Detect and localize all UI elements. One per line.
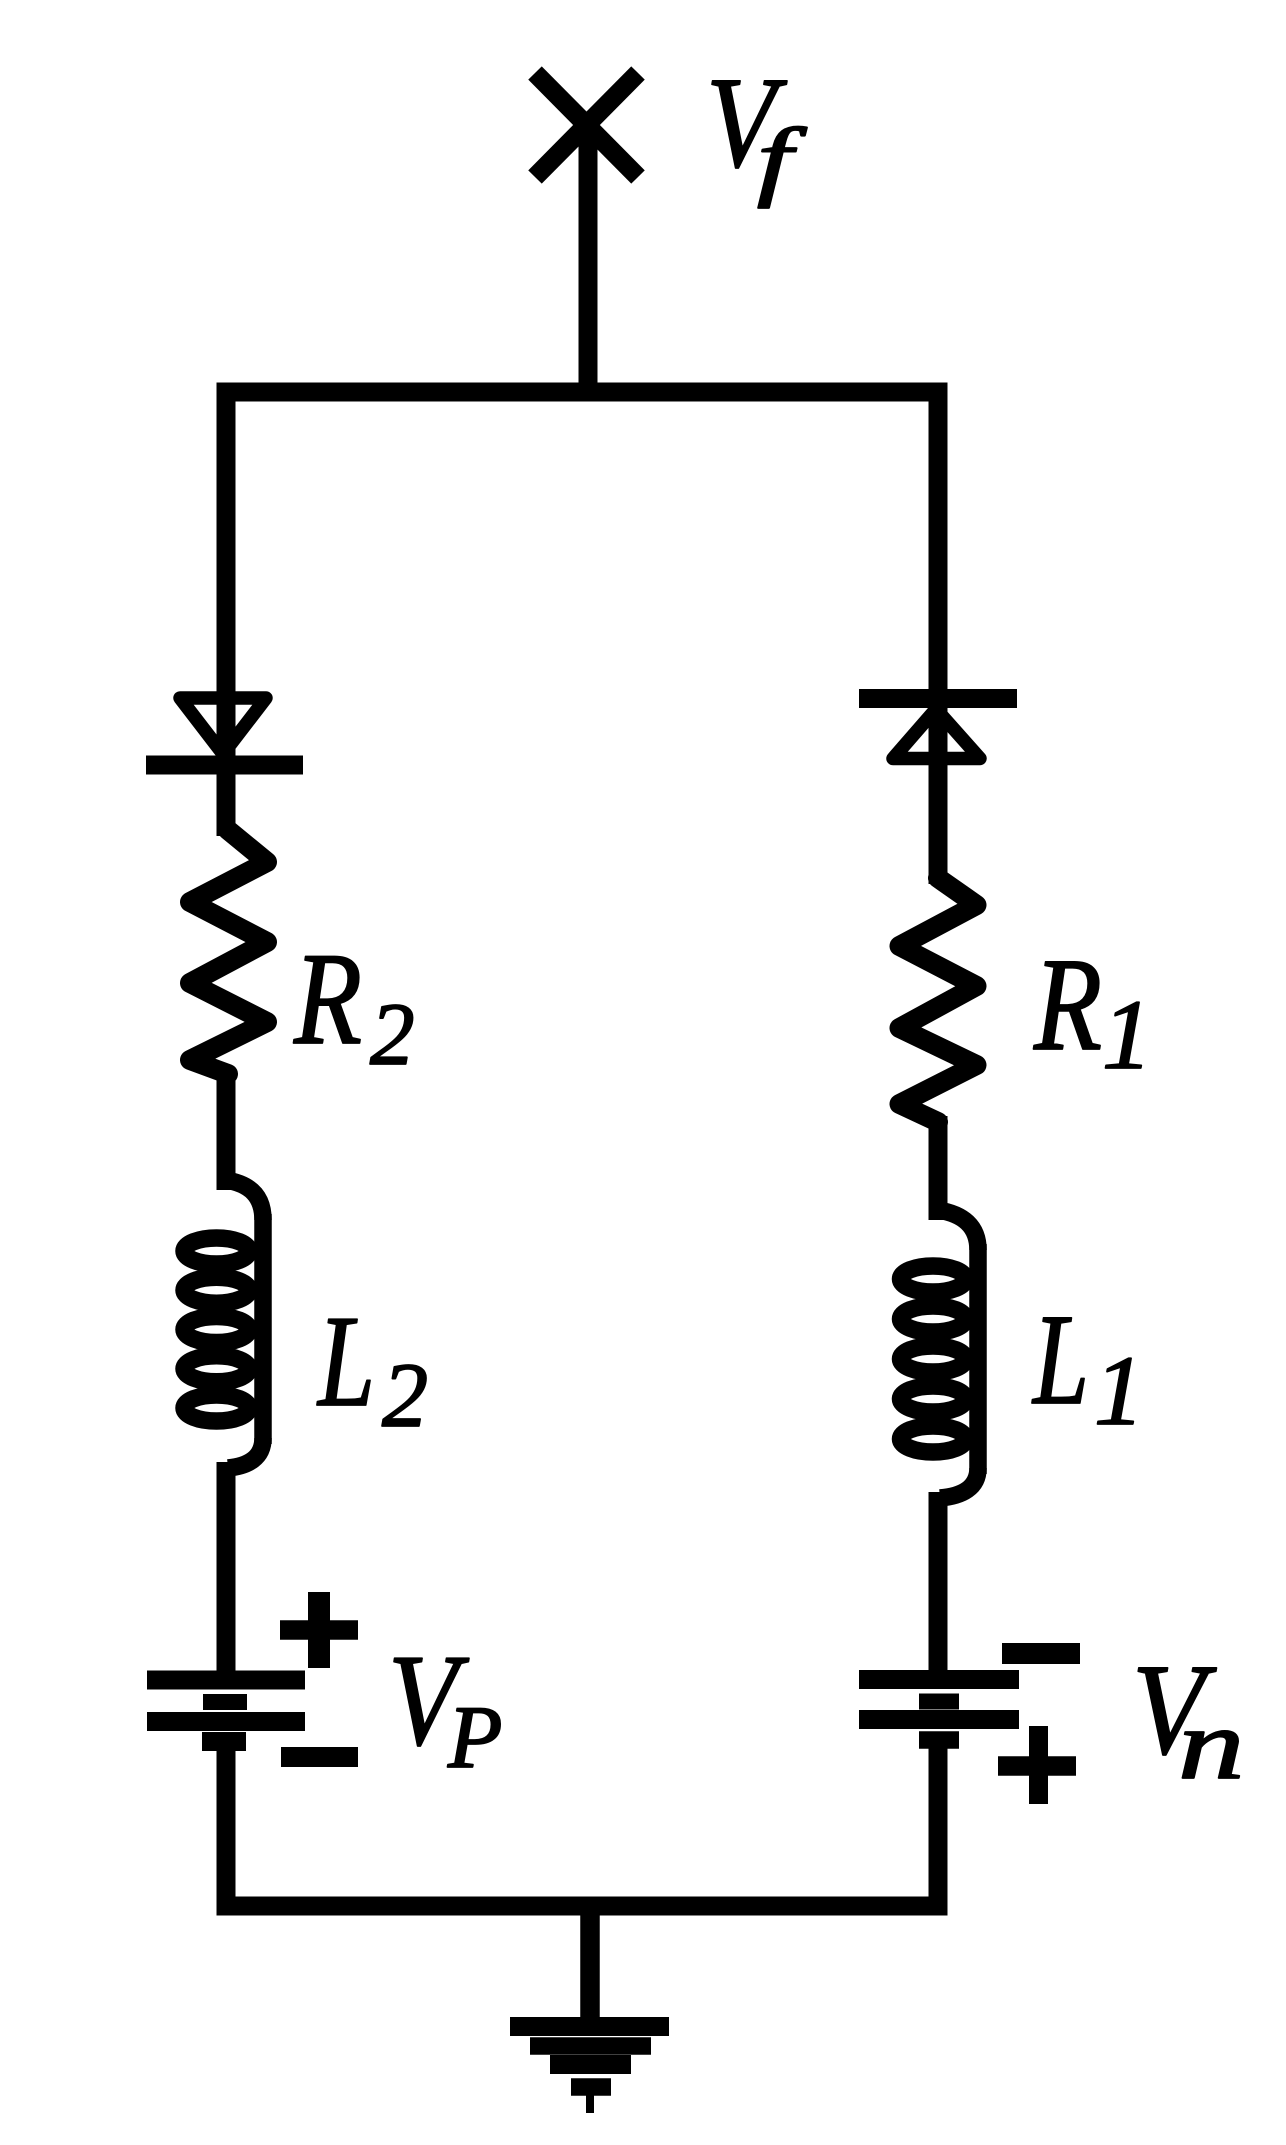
svg-text:P: P	[447, 1689, 502, 1787]
wire: bottom rail	[226, 1742, 938, 1906]
ground	[510, 1906, 669, 2113]
label Vf	[706, 51, 807, 209]
battery VP plus sign	[280, 1592, 358, 1668]
svg-text:n: n	[1178, 1690, 1244, 1800]
label L1	[1031, 1288, 1144, 1446]
label R2	[293, 925, 414, 1084]
wire: R2 to L2	[217, 1068, 236, 1190]
svg-text:1: 1	[1094, 1335, 1144, 1446]
svg-text:R: R	[293, 925, 362, 1072]
label L2	[316, 1289, 428, 1446]
inductor L2	[184, 1180, 263, 1468]
label R1	[1033, 930, 1152, 1090]
wire: R1 to L1	[929, 1116, 948, 1220]
wire: D1 to R1	[929, 760, 948, 884]
wire: Vf stub down to top rail	[579, 122, 598, 396]
diode D1 (right, cathode up)	[859, 694, 1017, 800]
battery Vn plates	[859, 1680, 1019, 1741]
label Vn	[1132, 1638, 1244, 1800]
diode D2 (left, cathode down)	[146, 692, 303, 780]
resistor R1	[900, 878, 977, 1122]
wire: L1 to battery Vn	[929, 1492, 948, 1680]
resistor R2	[190, 830, 267, 1074]
label VP	[388, 1628, 502, 1787]
svg-text:L: L	[1031, 1288, 1089, 1432]
battery VP plates	[147, 1680, 305, 1742]
battery VP minus sign	[281, 1747, 358, 1767]
svg-text:L: L	[316, 1289, 375, 1434]
wire: L2 to battery VP	[217, 1462, 236, 1680]
svg-text:2: 2	[382, 1344, 428, 1446]
svg-text:2: 2	[370, 986, 415, 1084]
svg-text:R: R	[1033, 930, 1102, 1078]
svg-text:1: 1	[1102, 979, 1152, 1090]
battery Vn minus sign	[1002, 1643, 1080, 1664]
wire: D2 to R2	[217, 770, 236, 836]
wire: VP to bottom rail	[217, 1742, 236, 1906]
battery Vn plus sign	[998, 1726, 1076, 1804]
terminal X (Vf input)	[535, 73, 638, 177]
wire: top rail with left and right drops	[226, 392, 938, 700]
inductor L1	[901, 1210, 979, 1498]
